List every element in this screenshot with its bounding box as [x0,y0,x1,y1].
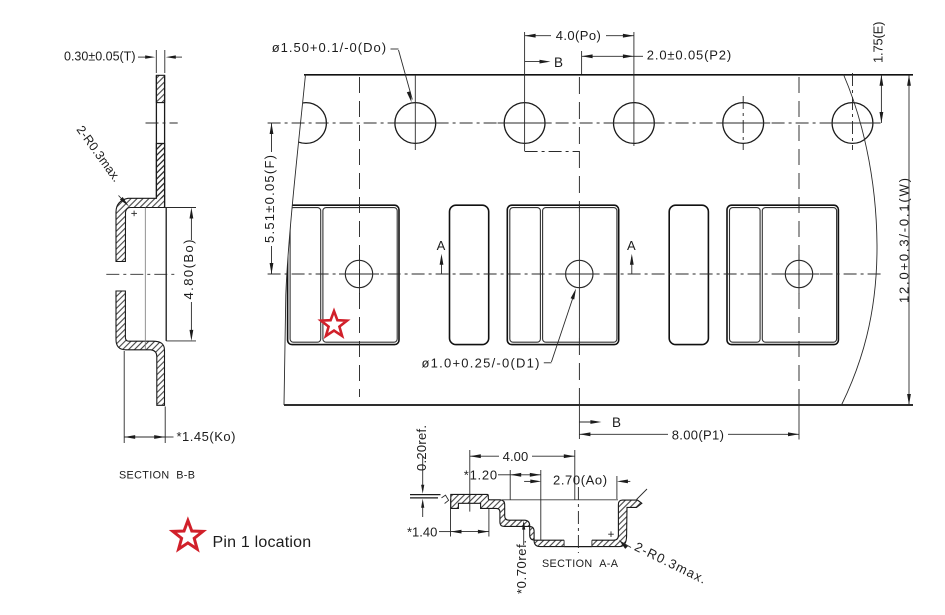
sprocket hole crosshair [826,122,880,124]
pocket group 1 wide cavity [323,208,397,343]
pocket group 2 narrow cavity [510,208,541,343]
svg-text:ø1.0+0.25/-0(D1): ø1.0+0.25/-0(D1) [422,356,541,371]
svg-text:12.0+0.3/-0.1(W): 12.0+0.3/-0.1(W) [897,176,912,303]
svg-text:4.00: 4.00 [503,449,529,464]
pocket group 1 narrow cavity [290,208,321,343]
section B-B top bar hatch upper [156,75,164,198]
section B-B inner pocket line [144,208,146,350]
svg-text:4.80(Bo): 4.80(Bo) [181,238,196,299]
svg-text:Pin 1 location: Pin 1 location [213,534,312,551]
sprocket hole Do #1 [286,103,327,144]
section A-A thin tape tail lines [410,494,441,496]
section arrow A [631,257,633,274]
svg-text:ø1.50+0.1/-0(Do): ø1.50+0.1/-0(Do) [272,40,387,55]
svg-text:0.30±0.05(T): 0.30±0.05(T) [64,49,135,63]
svg-text:*0.70ref.: *0.70ref. [514,539,529,594]
svg-text:*1.45(Ko): *1.45(Ko) [177,429,236,444]
leader Do [391,48,399,50]
pocket hole crosshair [339,273,379,275]
dimension 4.00 [469,450,471,512]
section A-A centerline [577,487,579,553]
pocket group 2 outer outline [507,205,618,344]
left break line [284,75,306,406]
svg-text:SECTION B-B: SECTION B-B [119,470,195,482]
section B cut line top [524,32,526,151]
section B-B pocket centerline [106,273,174,275]
svg-text:2.70(Ao): 2.70(Ao) [553,472,608,487]
sprocket hole Do #5 [723,103,764,144]
dimension *0.70ref [523,523,525,545]
section A-A left break squiggle [442,495,449,503]
dimension 5.5±0.05(F) [271,123,273,152]
svg-text:8.00(P1): 8.00(P1) [672,427,725,442]
dimension 4.80(Bo) [165,207,196,209]
sprocket 6 centerline [852,73,854,150]
pocket hole crosshair [779,273,819,275]
pocket center hole D1 #3 [785,260,812,287]
sprocket 2 extension line [414,75,416,150]
pocket 2 centerline upper dashes [578,77,580,151]
section A-A profile [451,494,642,546]
pocket row centerline [268,273,881,275]
pocket center hole D1 #2 [566,260,593,287]
dimension 1.45(Ko) [123,351,125,443]
pocket hole crosshair [559,273,599,275]
section B-B sprocket hole centerline [146,122,178,124]
sprocket hole Do #6 [832,103,873,144]
right break line [842,75,878,406]
pin 1 star in pocket 1 [321,311,347,336]
section arrow B bottom [578,405,580,439]
sprocket row centerline [268,122,882,124]
svg-text:*1.40: *1.40 [407,524,437,539]
svg-text:0.20ref.: 0.20ref. [414,425,429,471]
pocket group 1 outer outline [288,205,399,344]
svg-text:B: B [554,55,563,70]
plus mark (section A-A) [608,533,614,535]
pin 1 legend star [173,521,203,550]
svg-text:A: A [627,238,636,253]
tape top edge [304,74,913,76]
sprocket hole crosshair [388,122,442,124]
sprocket hole Do #2 [395,103,436,144]
section A-A right break slant [637,489,648,500]
label 2-R0.3max (section A-A) [619,540,628,549]
sprocket hole crosshair [716,122,770,124]
sprocket 5 centerline [742,96,744,150]
plus mark (section B-B) [131,212,137,214]
dimension 2.0±0.05(P2) [581,51,583,74]
svg-text:A: A [437,238,446,253]
pocket group 2 wide cavity [543,208,617,343]
pocket 1 hole vertical tick [359,254,361,294]
sprocket hole crosshair [498,122,552,124]
section A-A far ledge line [502,499,618,501]
dimension 12.0+0.3/-0.1(W) [908,75,910,405]
section arrow A [441,257,443,274]
section B-B pocket inner-right edge [165,208,167,341]
white mask beyond left break [262,76,306,404]
section A-A hole gap in floor [564,539,592,547]
sprocket hole crosshair [607,122,661,124]
pocket 3 hole vertical tick [798,254,800,294]
section B-B bar edges [155,75,157,198]
svg-text:5.51±0.05(F): 5.51±0.05(F) [262,154,277,243]
tape bottom edge [284,404,913,406]
section B cut line bottom (pocket 2 centerline) [578,151,580,212]
svg-text:*1.20: *1.20 [464,467,498,482]
dimension 4.0(Po) [633,32,635,146]
pocket center hole D1 #1 [345,260,372,287]
section arrow B top [525,61,546,63]
sprocket hole Do #3 [504,103,545,144]
dimension 2.70(Ao) [524,480,536,482]
pocket group 3 narrow cavity [730,208,761,343]
dimension 1.75(E) [880,75,882,123]
dimension 8.00(P1) [798,405,800,440]
narrow pocket 1 [450,205,489,344]
svg-text:2.0±0.05(P2): 2.0±0.05(P2) [647,48,732,63]
pocket 3 vertical centerline [798,77,800,405]
svg-text:4.0(Po): 4.0(Po) [556,28,601,43]
svg-text:SECTION A-A: SECTION A-A [542,558,619,570]
section B-B lower wall, floor and tail [116,291,165,405]
pocket group 3 outer outline [727,205,838,344]
pocket group 3 wide cavity [762,208,836,343]
section B jog [525,151,580,153]
section B-B top bar hatch lower [156,144,164,199]
narrow pocket 2 [669,205,708,344]
pocket 1 vertical centerline [359,77,361,397]
svg-text:1.75(E): 1.75(E) [871,22,886,63]
svg-text:B: B [612,415,621,430]
sprocket hole Do #4 [614,103,655,144]
section B-B flange and upper wall [116,144,165,262]
